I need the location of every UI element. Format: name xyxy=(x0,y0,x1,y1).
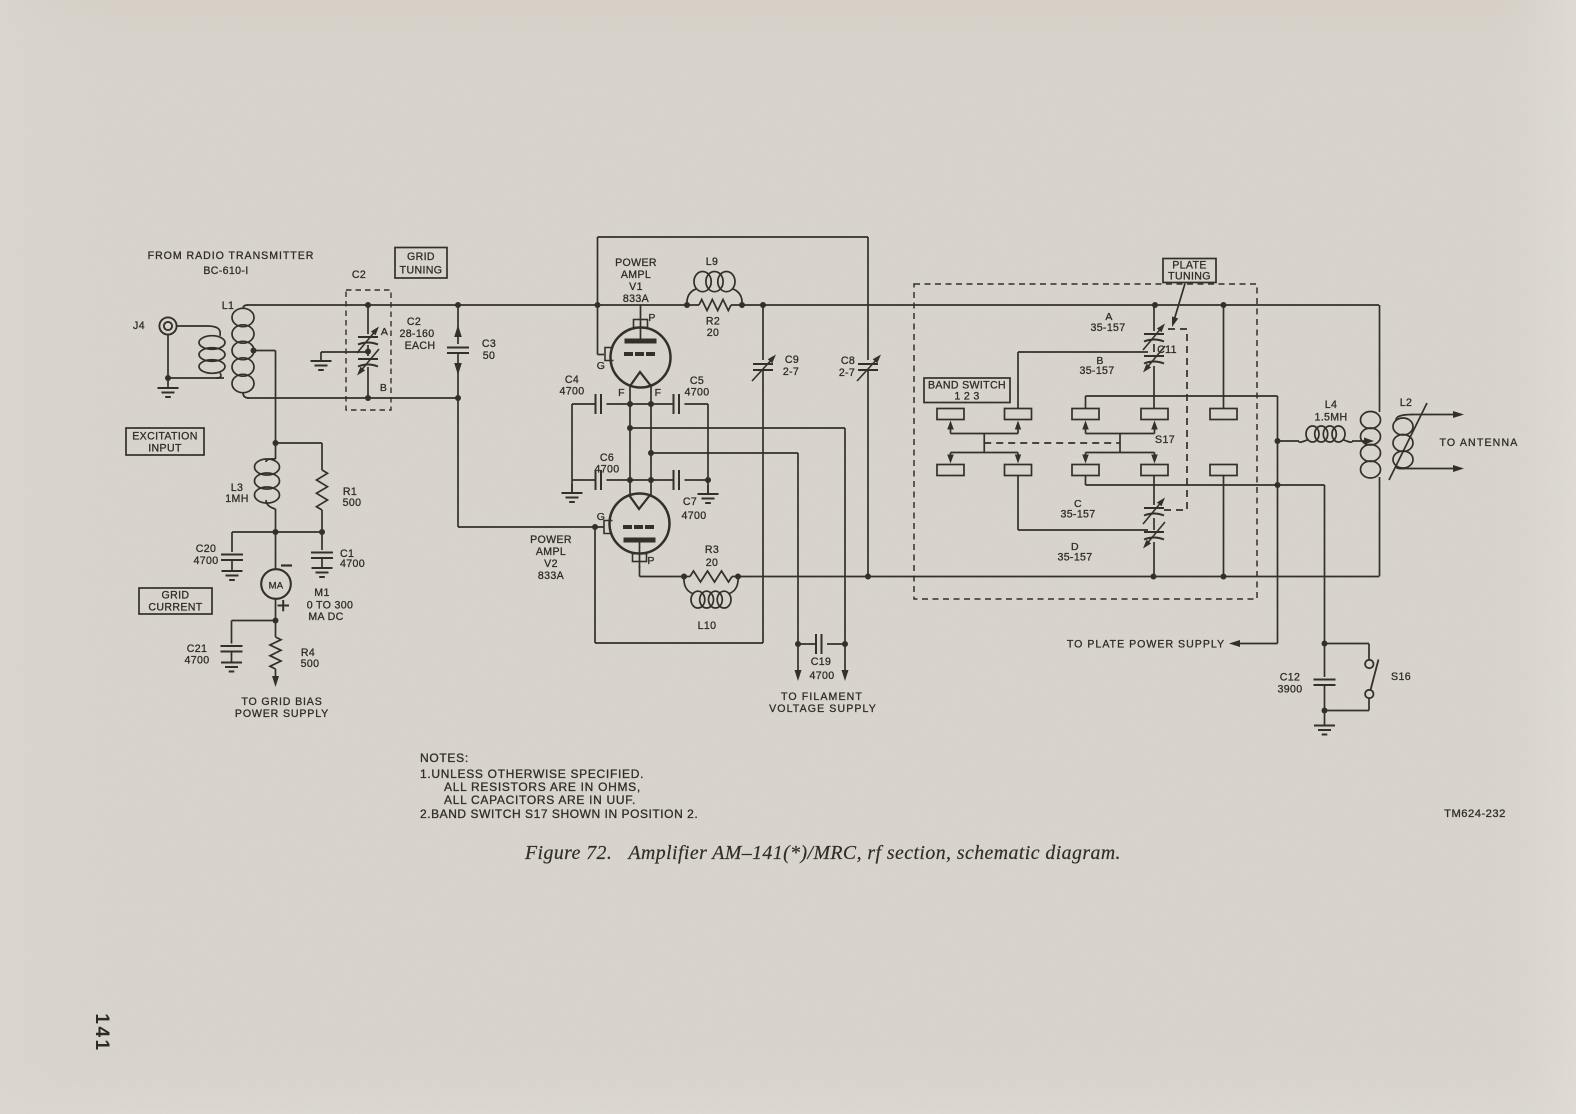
wire C5-C7 right stub xyxy=(707,404,709,494)
tube V1 (833A) xyxy=(605,257,671,388)
capacitor C4 xyxy=(560,374,601,414)
wire contact 5 top feed xyxy=(1223,305,1225,409)
page number 141 xyxy=(91,1013,112,1052)
label box GRID TUNING xyxy=(395,248,447,279)
wire V1-V2 filament pin right (x=651) xyxy=(648,386,654,495)
capacitor C2 dashed enclosure xyxy=(346,290,391,410)
label V2 pin G xyxy=(597,511,606,523)
resistor R3 xyxy=(690,544,732,582)
wire contact 3 bottom feed (y=485) xyxy=(1086,476,1325,486)
label TO FILAMENT VOLTAGE SUPPLY xyxy=(769,691,877,715)
label TM624-232 xyxy=(1444,808,1506,820)
inductor L3 xyxy=(225,443,279,532)
label FROM RADIO TRANSMITTER BC-610-I xyxy=(148,250,315,277)
wire main grid bus (L1 secondary top, y=305) xyxy=(247,302,1379,308)
ground (C20) xyxy=(222,560,243,580)
label C2 28-160 EACH xyxy=(399,316,435,352)
label TO GRID BIAS POWER SUPPLY xyxy=(235,696,329,720)
switch S17 wipers lower-middle pair xyxy=(1082,443,1158,464)
meter M1 (MA) xyxy=(261,532,353,623)
capacitor C7 xyxy=(674,470,707,522)
switch S16 xyxy=(1325,644,1411,711)
wire V1 plate to main bus xyxy=(640,305,642,314)
capacitor C5 xyxy=(674,375,710,414)
wire V1 grid riser xyxy=(598,237,605,355)
capacitor C20 xyxy=(194,532,243,567)
label C2 (above box) xyxy=(352,269,366,281)
wire contact 5 bottom feed xyxy=(1223,476,1225,577)
wire antenna lead lower xyxy=(1411,465,1464,472)
ground (filament left) xyxy=(562,484,583,502)
wire excitation node (y=443) xyxy=(273,440,323,446)
label S17 xyxy=(1155,434,1175,446)
notes block xyxy=(420,751,698,821)
ground (C12) xyxy=(1314,711,1335,735)
label C11 xyxy=(1157,344,1177,356)
ground (C1) xyxy=(312,558,333,577)
capacitor C8 (2-7) xyxy=(839,237,881,577)
wire filament left stub xyxy=(571,404,573,493)
wire filament line A (y=404) xyxy=(572,401,708,407)
capacitor C12 xyxy=(1278,641,1336,714)
capacitor C1 xyxy=(311,532,365,570)
wire meter node (y=532) xyxy=(232,529,325,535)
capacitor C11 section B (35-157) xyxy=(1079,344,1165,409)
inductor L4 xyxy=(1278,399,1375,445)
ground (filament right) xyxy=(698,485,719,503)
wire V2 grid loop xyxy=(595,527,763,643)
label TO PLATE POWER SUPPLY xyxy=(1067,639,1225,651)
switch S17 wipers lower-left pair xyxy=(947,443,1021,464)
wire C12 feed (x=1324.5) xyxy=(1324,485,1326,644)
ground (J4) xyxy=(158,378,179,397)
transformer L1 xyxy=(199,300,257,398)
wire V2 plate to bottom bus xyxy=(640,566,685,577)
label box EXCITATION INPUT xyxy=(126,428,204,455)
wire antenna lead upper xyxy=(1411,411,1464,418)
inductor L10 xyxy=(684,577,738,633)
capacitor C11 section A (35-157) xyxy=(1090,305,1165,350)
wire J4 to L1 primary xyxy=(177,325,209,327)
wire L1 center tap to excitation node xyxy=(254,351,276,444)
label V1 pins F F xyxy=(618,387,661,399)
capacitor C21 xyxy=(185,621,243,667)
label TO ANTENNA xyxy=(1440,437,1519,449)
dashed plate-tuning enclosure xyxy=(914,284,1257,599)
wire C2 rotor ground link xyxy=(321,351,368,353)
resistor R4 xyxy=(270,621,319,688)
switch S17 contact rectangles top row xyxy=(937,409,1237,420)
label box GRID CURRENT xyxy=(139,588,212,614)
wire to plate power supply arrow xyxy=(1229,640,1278,647)
figure caption xyxy=(524,842,1121,864)
wire filament line B (y=480) xyxy=(572,477,711,483)
tube V2 (833A) xyxy=(530,494,669,583)
label box PLATE TUNING xyxy=(1163,259,1216,283)
capacitor C19 xyxy=(795,428,849,682)
inductor L9 xyxy=(687,256,742,305)
switch S17 wipers upper-middle pair xyxy=(1082,421,1158,444)
capacitor C11 section D (35-157) xyxy=(1057,518,1165,577)
capacitor C11 section C (35-157) xyxy=(1060,476,1165,525)
wire plate feed vertical (x=1277.5) xyxy=(1275,396,1281,644)
label V2 pin P xyxy=(647,555,654,567)
resistor R2 xyxy=(699,300,731,340)
pointer PLATE TUNING to C11 shaft xyxy=(1172,284,1185,328)
switch S17 wipers upper-left pair xyxy=(947,421,1021,444)
wire C3 to V2 grid xyxy=(458,398,604,530)
wire bottom bus (y=576.5) xyxy=(681,574,1379,580)
dashed C11 gang shaft xyxy=(1164,329,1187,510)
label V1 pin P xyxy=(648,312,655,324)
inductor L2 primary xyxy=(1361,305,1381,577)
wire filament feed lower (y=453) xyxy=(651,452,798,454)
ground (C21) xyxy=(221,652,242,672)
wire L1 secondary bottom (y=398) xyxy=(247,395,461,401)
capacitor C9 (2-7) xyxy=(752,305,799,643)
wire V1-V2 filament pin left (x=630) xyxy=(627,386,633,495)
label V1 pin G xyxy=(597,360,606,372)
resistor R1 xyxy=(317,443,362,532)
wire grid-bias node (y=620.5) xyxy=(232,618,279,624)
connector J4 xyxy=(133,317,177,334)
capacitor C3 (variable) xyxy=(447,305,496,398)
capacitor C6 xyxy=(595,452,620,490)
wire J4 ground leg xyxy=(165,335,224,381)
wire band-switch to A-B junction (y=352) xyxy=(1018,352,1148,409)
capacitor C2 section A xyxy=(357,305,388,355)
wire filament feed upper (y=428) xyxy=(630,427,845,429)
inductor L2 secondary xyxy=(1389,397,1427,480)
svg-text:141: 141 xyxy=(91,1013,112,1052)
ground (C2) xyxy=(311,352,332,370)
switch S17 shaft (dashed) xyxy=(984,442,1120,444)
wire top bus (y=237) xyxy=(598,236,869,238)
switch S17 contact rectangles bottom row xyxy=(937,465,1237,476)
capacitor C2 section B xyxy=(357,345,387,398)
wire band-switch to C-D junction (y=530) xyxy=(1018,476,1148,531)
label box BAND SWITCH 1 2 3 xyxy=(924,378,1010,403)
wire contact 3 top feed (y=396) xyxy=(1086,396,1278,409)
